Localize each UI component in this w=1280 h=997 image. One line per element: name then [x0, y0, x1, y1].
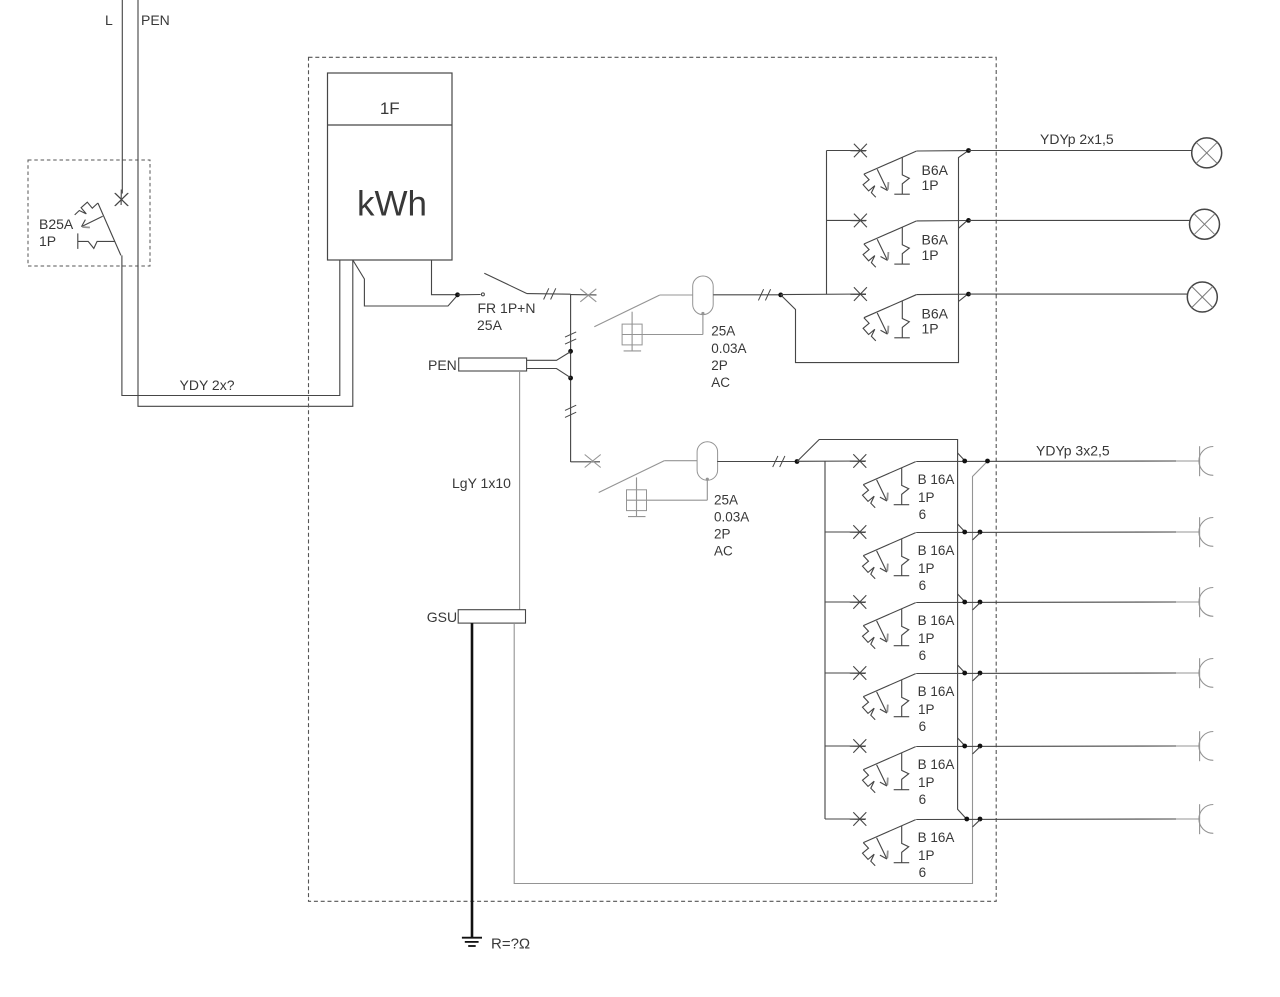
wire output breaker Q5: [916, 531, 1176, 534]
wire PE from GSU to socket circuits: [514, 461, 987, 883]
PEN busbar: [459, 358, 527, 371]
svg-text:6: 6: [919, 578, 927, 593]
svg-text:R=?Ω: R=?Ω: [491, 936, 530, 953]
cable label YDYp 3x2,5: [1036, 443, 1110, 459]
label GSU busbar: [427, 609, 457, 625]
label B 16A of Q7: [918, 684, 955, 699]
label 1P of Q8: [918, 775, 935, 790]
wire PE branch socket row 5: [973, 747, 981, 754]
wire FR output: [527, 293, 571, 296]
svg-text:1P: 1P: [918, 561, 935, 576]
cable label YDY 2x?: [180, 377, 235, 393]
wire L below breaker to meter: [122, 255, 340, 395]
wire lamp circuit 2: [969, 219, 1191, 221]
terminal X on L line: [116, 194, 128, 206]
wire lamp circuit 3: [969, 293, 1188, 295]
label AC of F1: [711, 375, 730, 390]
conductor-count slashes on FR output: [544, 288, 556, 299]
circuit breaker Q8 B 16A: [850, 739, 916, 793]
svg-text:1P: 1P: [918, 775, 935, 790]
svg-text:25A: 25A: [711, 324, 735, 339]
junction dot N socket circuit 1: [962, 459, 967, 464]
wire N branch socket row 5: [958, 738, 965, 745]
wire N branch to lamp row 3: [959, 295, 968, 302]
label 6 of Q8: [919, 792, 927, 807]
label 1P of Q9: [918, 848, 935, 863]
wire output breaker Q7: [916, 672, 1176, 675]
wire LgY 1x10 PEN to GSU: [519, 371, 521, 610]
wire input breaker Q7: [825, 745, 866, 747]
label AC of F2: [714, 544, 733, 559]
wire output breaker Q4: [916, 460, 1176, 463]
svg-text:B 16A: B 16A: [918, 684, 955, 699]
junction dot N socket circuit 2: [962, 530, 967, 535]
wire input breaker Q5: [825, 601, 866, 603]
svg-text:B 16A: B 16A: [918, 757, 955, 772]
junction dot lamp circuit 2: [966, 218, 971, 223]
wire RCD2 output: [717, 461, 797, 463]
socket outlet X1: [1199, 446, 1213, 476]
label 25A of F1: [711, 324, 735, 339]
residual current device F1: [580, 276, 713, 351]
wire socket circuit stub 1: [1176, 460, 1200, 462]
svg-text:B6A: B6A: [922, 305, 949, 321]
circuit breaker Q7 B 16A: [850, 666, 916, 720]
wire N branch socket row 3: [958, 594, 965, 601]
label B6A of Q3: [922, 305, 949, 321]
junction dot N socket circuit 5: [962, 744, 967, 749]
wire input breaker Q6: [825, 672, 866, 674]
svg-text:2P: 2P: [711, 358, 728, 373]
wire socket breakers input bus: [824, 461, 826, 819]
svg-text:6: 6: [919, 648, 927, 663]
label 6 of Q9: [919, 865, 927, 880]
wire socket circuit stub 2: [1176, 531, 1200, 533]
svg-text:1P: 1P: [918, 631, 935, 646]
circuit breaker Q2 B6A: [850, 214, 916, 268]
wire output breaker Q1: [916, 150, 968, 152]
isolator switch FR contact circle: [481, 293, 484, 296]
label 1P of Q7: [918, 702, 935, 717]
wire PEN busbar link upper: [527, 352, 571, 361]
label B6A of Q1: [922, 162, 949, 178]
label PEN busbar: [428, 357, 457, 373]
svg-text:B6A: B6A: [922, 232, 949, 248]
wire PE branch socket row 3: [973, 603, 981, 610]
svg-text:6: 6: [919, 865, 927, 880]
wire PE branch socket row 2: [973, 533, 981, 540]
dashed enclosure of breaker B25A: [28, 160, 150, 266]
wire input breaker Q8: [825, 818, 866, 820]
svg-text:B 16A: B 16A: [918, 613, 955, 628]
svg-text:LgY 1x10: LgY 1x10: [452, 475, 511, 491]
socket outlet X2: [1199, 517, 1213, 547]
label 1P of Q1: [922, 177, 939, 193]
wire stub to RCD2 input: [571, 461, 600, 463]
wire lamp circuit 1: [969, 150, 1193, 152]
label 0.03A of F2: [714, 510, 749, 525]
label 6 of Q7: [919, 719, 927, 734]
label 25A of FR: [477, 317, 503, 333]
wire PE branch socket row 4: [973, 674, 981, 681]
label 1P of B25A: [39, 233, 56, 249]
circuit breaker Q3 B6A: [850, 287, 916, 341]
junction dot RCD1 output: [778, 293, 783, 298]
svg-text:0.03A: 0.03A: [711, 341, 746, 356]
svg-text:1P: 1P: [922, 247, 939, 263]
label FR 1P+N: [478, 300, 536, 316]
socket outlet X4: [1199, 658, 1213, 688]
label B6A of Q2: [922, 232, 949, 248]
wire input breaker Q1: [827, 150, 867, 152]
svg-text:PEN: PEN: [141, 12, 170, 28]
wire N branch to lamp row 2: [959, 221, 967, 228]
wire output breaker Q3: [916, 293, 968, 295]
label B 16A of Q5: [918, 543, 955, 558]
wire N branch socket row 1: [958, 453, 965, 460]
svg-text:1F: 1F: [380, 99, 400, 118]
wire socket circuit stub 5: [1176, 745, 1200, 747]
svg-text:25A: 25A: [714, 493, 738, 508]
svg-text:B 16A: B 16A: [918, 543, 955, 558]
lamp E3: [1187, 282, 1217, 312]
label 2P of F1: [711, 358, 728, 373]
lamp E2: [1190, 209, 1220, 239]
svg-text:YDYp 3x2,5: YDYp 3x2,5: [1036, 443, 1110, 459]
svg-text:1P: 1P: [39, 233, 56, 249]
junction dot N socket circuit 3: [962, 600, 967, 605]
svg-text:25A: 25A: [477, 317, 503, 333]
isolator switch FR blade: [484, 273, 527, 293]
svg-text:1P: 1P: [922, 321, 939, 337]
label 6 of Q6: [919, 648, 927, 663]
wire PEN supply: [138, 0, 353, 406]
circuit breaker Q1 B6A: [850, 144, 916, 198]
svg-text:2P: 2P: [714, 527, 731, 542]
svg-text:B25A: B25A: [39, 216, 74, 232]
socket outlet X6: [1199, 804, 1213, 834]
label 1P of Q6: [918, 631, 935, 646]
wire PE branch socket row 6: [973, 820, 981, 827]
label 6 of Q4: [919, 507, 927, 522]
svg-text:0.03A: 0.03A: [714, 510, 749, 525]
svg-text:1P: 1P: [922, 177, 939, 193]
junction dot N socket circuit 6: [964, 817, 969, 822]
svg-text:6: 6: [919, 719, 927, 734]
wire to FR contact: [458, 294, 481, 296]
junction dot bus PEN top: [568, 349, 573, 354]
socket outlet X5: [1199, 731, 1213, 761]
wire meter L lead to FR: [432, 260, 458, 295]
wire main bus vertical: [570, 294, 572, 462]
meter label kWh: [357, 185, 427, 224]
wire output breaker Q6: [916, 601, 1176, 604]
label B 16A of Q9: [918, 830, 955, 845]
junction dot lamp circuit 3: [966, 292, 971, 297]
label B25A: [39, 216, 74, 232]
net label PEN: [141, 12, 170, 28]
junction dot PE socket circuit 5: [978, 744, 983, 749]
circuit breaker Q6 B 16A: [850, 595, 916, 649]
svg-text:6: 6: [919, 507, 927, 522]
wire socket circuit stub 3: [1176, 601, 1200, 603]
svg-text:AC: AC: [714, 544, 733, 559]
meter label 1F: [380, 99, 400, 118]
svg-text:YDYp 2x1,5: YDYp 2x1,5: [1040, 131, 1114, 147]
circuit breaker Q4 B 16A: [850, 454, 916, 508]
conductor-count slashes on RCD1 output: [758, 289, 770, 300]
svg-text:YDY 2x?: YDY 2x?: [180, 377, 235, 393]
distribution board dashed border: [309, 57, 997, 901]
svg-text:B6A: B6A: [922, 162, 949, 178]
svg-text:B 16A: B 16A: [918, 472, 955, 487]
junction dot PE socket circuit 1: [985, 459, 990, 464]
label 1P of Q2: [922, 247, 939, 263]
earth electrode symbol: [462, 938, 482, 946]
wire N bypass lighting group: [781, 151, 968, 362]
cable label LgY 1x10: [452, 475, 511, 491]
wire L supply vertical: [121, 0, 123, 194]
cable label YDYp 2x1,5: [1040, 131, 1114, 147]
svg-text:1P: 1P: [918, 490, 935, 505]
wire socket circuit stub 4: [1176, 672, 1200, 674]
label 6 of Q5: [919, 578, 927, 593]
wire socket circuit stub 6: [1176, 818, 1200, 820]
wire meter N lead to FR: [353, 260, 458, 306]
junction dot meter outputs: [455, 292, 460, 297]
wire PEN busbar link lower: [527, 369, 571, 378]
earthing conductor: [471, 623, 474, 938]
wire RCD1 to lighting group: [781, 293, 866, 296]
wire output breaker Q8: [916, 745, 1176, 748]
wire input breaker Q4: [825, 531, 866, 533]
wire RCD1 output: [713, 294, 780, 296]
svg-text:GSU: GSU: [427, 609, 457, 625]
energy meter 1F kWh box: [328, 73, 453, 260]
junction dot PE socket circuit 6: [978, 817, 983, 822]
svg-text:1P: 1P: [918, 702, 935, 717]
conductor-count slashes on bus lower: [565, 405, 576, 417]
wire output breaker Q2: [916, 220, 968, 222]
junction dot PE socket circuit 2: [978, 530, 983, 535]
svg-text:L: L: [105, 12, 113, 28]
junction dot N socket circuit 4: [962, 671, 967, 676]
junction dot bus PEN bottom: [568, 376, 573, 381]
svg-text:B 16A: B 16A: [918, 830, 955, 845]
GSU busbar: [458, 610, 525, 623]
label 25A of F2: [714, 493, 738, 508]
svg-text:kWh: kWh: [357, 185, 427, 224]
lamp E1: [1192, 138, 1222, 168]
junction dot PE socket circuit 3: [978, 600, 983, 605]
wire N branch socket row 4: [958, 665, 965, 672]
label 1P of Q4: [918, 490, 935, 505]
label 1P of Q5: [918, 561, 935, 576]
svg-text:AC: AC: [711, 375, 730, 390]
svg-text:6: 6: [919, 792, 927, 807]
circuit breaker B25A: [75, 190, 129, 256]
residual current device F2: [585, 442, 718, 517]
wire N branch socket row 2: [958, 524, 965, 531]
conductor-count slashes on RCD2 output: [773, 456, 785, 467]
wire lighting breakers input bus: [826, 151, 828, 295]
junction dot RCD2 output: [795, 459, 800, 464]
label B 16A of Q6: [918, 613, 955, 628]
wire N bypass socket group: [797, 440, 966, 819]
wire RCD2 to socket group: [797, 460, 866, 462]
wire input breaker Q2: [827, 219, 867, 221]
net label L: [105, 12, 113, 28]
label B 16A of Q4: [918, 472, 955, 487]
junction dot PE socket circuit 4: [978, 671, 983, 676]
svg-text:FR 1P+N: FR 1P+N: [478, 300, 536, 316]
svg-text:1P: 1P: [918, 848, 935, 863]
circuit breaker Q5 B 16A: [850, 525, 916, 579]
label 1P of Q3: [922, 321, 939, 337]
socket outlet X3: [1199, 587, 1213, 617]
label 0.03A of F1: [711, 341, 746, 356]
label 2P of F2: [714, 527, 731, 542]
label R=?&#937;: [491, 936, 530, 953]
junction dot lamp circuit 1: [966, 148, 971, 153]
label B 16A of Q8: [918, 757, 955, 772]
wire stub to RCD1 input: [571, 294, 597, 296]
wire output breaker Q9: [916, 818, 1176, 821]
svg-text:PEN: PEN: [428, 357, 457, 373]
circuit breaker Q9 B 16A: [850, 812, 916, 866]
conductor-count slashes on bus upper: [565, 332, 576, 344]
